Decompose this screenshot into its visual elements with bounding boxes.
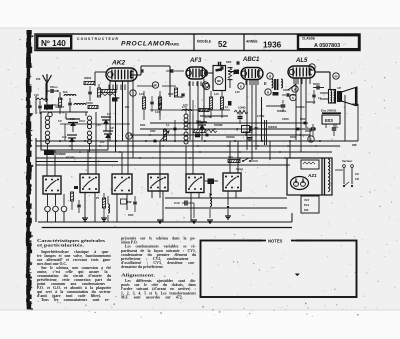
- svg-text:5000: 5000: [140, 124, 146, 127]
- svg-text:Chauf: Chauf: [236, 168, 243, 171]
- svg-text:0,10: 0,10: [139, 93, 144, 96]
- svg-text:8-P: 8-P: [107, 113, 111, 116]
- svg-text:et particularités.: et particularités.: [37, 244, 84, 248]
- svg-text:A 0507803: A 0507803: [314, 43, 340, 49]
- svg-text:PROCLAMOR: PROCLAMOR: [121, 41, 171, 48]
- svg-text:b: b: [267, 90, 269, 94]
- svg-text:30000: 30000: [84, 76, 92, 80]
- svg-text:4V.5: 4V.5: [304, 198, 310, 202]
- svg-text:CV3: CV3: [196, 120, 201, 123]
- svg-text:250: 250: [36, 77, 41, 81]
- svg-text:ac: ac: [217, 79, 221, 83]
- svg-text:4-7MF: 4-7MF: [205, 116, 212, 119]
- svg-text:Bob: Bob: [63, 91, 68, 94]
- svg-text:1MF: 1MF: [127, 201, 132, 204]
- svg-text:3-30: 3-30: [70, 118, 75, 121]
- svg-text:50000pF: 50000pF: [306, 101, 316, 104]
- svg-text:20Ω: 20Ω: [228, 156, 233, 159]
- svg-text:Tous les commutateurs sont: Tous les commutateurs sont re-: [41, 298, 110, 302]
- svg-text:AK2: AK2: [111, 60, 126, 67]
- svg-text:AF3: AF3: [189, 58, 202, 64]
- svg-text:CLASSE: CLASSE: [302, 37, 315, 41]
- svg-text:2500: 2500: [150, 130, 156, 133]
- svg-text:0,25: 0,25: [34, 94, 39, 97]
- svg-text:1MF: 1MF: [254, 127, 259, 130]
- svg-text:M.F. sont accordés sur: M.F. sont accordés sur 472.: [121, 295, 183, 299]
- svg-text:d: d: [269, 74, 271, 78]
- svg-text:o: o: [205, 85, 207, 89]
- svg-text:E03: E03: [325, 118, 333, 123]
- svg-text:0,5MΩ: 0,5MΩ: [238, 107, 246, 110]
- svg-text:500cm: 500cm: [50, 86, 57, 89]
- svg-text:2MF: 2MF: [352, 144, 357, 147]
- svg-text:ANNÉE: ANNÉE: [246, 39, 258, 44]
- svg-text:0,1MF: 0,1MF: [113, 97, 120, 100]
- svg-text:1936: 1936: [263, 40, 282, 49]
- svg-text:MF/MD: MF/MD: [66, 156, 75, 160]
- svg-text:e: e: [240, 84, 242, 88]
- svg-text:5000: 5000: [226, 61, 232, 64]
- svg-text:a: a: [294, 87, 296, 91]
- svg-text:350Ω: 350Ω: [290, 136, 296, 139]
- svg-text:1MΩ: 1MΩ: [178, 96, 183, 99]
- svg-text:110: 110: [355, 173, 360, 176]
- svg-text:0,10: 0,10: [214, 93, 219, 96]
- svg-text:CONSTRUCTEUR: CONSTRUCTEUR: [77, 37, 119, 41]
- svg-text:50000: 50000: [313, 83, 320, 86]
- svg-text:130: 130: [355, 178, 360, 181]
- svg-text:3-P: 3-P: [110, 127, 114, 130]
- svg-text:Alignement.: Alignement.: [121, 274, 155, 278]
- svg-text:PARIS: PARIS: [170, 43, 180, 47]
- svg-text:II: II: [264, 81, 267, 86]
- svg-text:densateur du présélecteur.: densateur du présélecteur.: [121, 265, 164, 269]
- svg-text:Secteur: Secteur: [342, 159, 353, 163]
- svg-text:Caractéristiques générales: Caractéristiques générales: [37, 239, 106, 243]
- svg-text:Ant 2x7: Ant 2x7: [54, 106, 65, 109]
- svg-text:ABC1: ABC1: [242, 57, 260, 63]
- svg-text:+: +: [337, 125, 339, 129]
- svg-text:0,25: 0,25: [235, 91, 240, 94]
- svg-text:CV2: CV2: [96, 124, 101, 127]
- svg-text:50MΩ: 50MΩ: [184, 122, 191, 125]
- svg-text:52: 52: [218, 40, 227, 49]
- svg-text:m: m: [334, 74, 337, 78]
- svg-text:5-P: 5-P: [58, 120, 62, 123]
- svg-text:500: 500: [304, 208, 309, 212]
- svg-text:500MMF: 500MMF: [56, 153, 66, 156]
- svg-text:AZ1: AZ1: [307, 173, 317, 178]
- svg-text:6V.3: 6V.3: [304, 203, 310, 207]
- svg-text:5000: 5000: [168, 93, 174, 96]
- svg-text:0,10: 0,10: [155, 111, 160, 114]
- svg-text:20000Ω: 20000Ω: [296, 106, 305, 109]
- svg-text:AL5: AL5: [295, 58, 308, 64]
- svg-text:+: +: [307, 125, 309, 129]
- svg-text:10000: 10000: [282, 118, 289, 121]
- svg-text:Nº 140: Nº 140: [41, 39, 66, 48]
- svg-text:5000MF: 5000MF: [214, 124, 223, 127]
- svg-text:250: 250: [125, 106, 130, 109]
- svg-text:50000Ω: 50000Ω: [243, 131, 252, 134]
- svg-text:s: s: [292, 96, 294, 100]
- svg-text:17,5: 17,5: [182, 106, 187, 109]
- svg-text:NOTES: NOTES: [268, 239, 283, 244]
- svg-text:C10: C10: [174, 201, 180, 205]
- svg-text:CV1: CV1: [79, 119, 85, 123]
- svg-text:P1: P1: [96, 196, 100, 200]
- svg-text:Exc 2400Ω: Exc 2400Ω: [321, 109, 337, 113]
- svg-text:G.O.: G.O.: [62, 136, 67, 139]
- svg-text:50000: 50000: [86, 102, 93, 105]
- svg-text:MODÈLE: MODÈLE: [197, 39, 212, 44]
- svg-text:5000: 5000: [128, 214, 134, 217]
- svg-text:20000: 20000: [305, 130, 312, 133]
- svg-text:40000Ω: 40000Ω: [226, 136, 235, 139]
- svg-text:5000: 5000: [300, 118, 306, 121]
- svg-text:HP: HP: [338, 87, 342, 90]
- svg-text:0,7MΩ: 0,7MΩ: [257, 115, 264, 118]
- svg-text:50000m: 50000m: [277, 110, 287, 113]
- svg-text:P.O.: P.O.: [100, 141, 105, 144]
